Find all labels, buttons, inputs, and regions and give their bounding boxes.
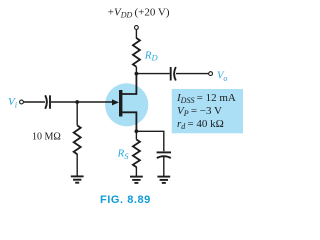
capacitor C1 left plate <box>45 95 47 109</box>
JFET channel bar <box>119 90 122 117</box>
node drain junction <box>135 72 139 76</box>
node source junction <box>135 129 139 133</box>
wire source node to RS <box>135 131 137 139</box>
node gate junction <box>75 100 79 104</box>
capacitor CS top plate <box>157 151 171 153</box>
resistor RD <box>133 38 140 67</box>
resistor RG 10 Mohm <box>74 125 81 154</box>
wire drain node to output capacitor <box>136 73 169 75</box>
wire source node to CS <box>136 131 163 151</box>
ground under CS <box>157 177 170 183</box>
capacitor C1 right plate <box>49 95 51 109</box>
svg-text:Vi: Vi <box>8 96 18 110</box>
highlight circle around JFET <box>105 83 148 126</box>
svg-text:Vo: Vo <box>217 71 227 84</box>
wire RS to ground <box>135 167 137 177</box>
svg-text:FIG. 8.89: FIG. 8.89 <box>100 194 151 206</box>
wire RG to ground <box>76 154 78 177</box>
svg-text:+VDD (+20 V): +VDD (+20 V) <box>108 6 170 19</box>
JFET drain lead <box>122 74 136 94</box>
ground under RG <box>71 176 84 182</box>
wire C1 to gate <box>51 101 114 103</box>
wire RD to drain node <box>135 67 137 74</box>
capacitor C2 right plate <box>174 67 176 81</box>
wire CS to ground <box>163 157 165 177</box>
svg-text:RS: RS <box>117 148 130 162</box>
wire C2 to Vo terminal <box>176 73 209 75</box>
capacitor CS bottom plate <box>157 156 171 158</box>
Vi terminal <box>20 100 24 104</box>
wire Vi to C1 <box>23 101 45 103</box>
gate arrowhead <box>112 99 119 105</box>
capacitor C2 left plate <box>170 67 172 81</box>
Vo terminal <box>209 72 213 76</box>
info box background <box>172 89 243 133</box>
resistor RS <box>133 140 140 168</box>
JFET source lead <box>122 112 136 131</box>
svg-text:10 MΩ: 10 MΩ <box>32 131 61 142</box>
svg-text:RD: RD <box>144 50 159 63</box>
wire gate node down to RG <box>76 102 78 125</box>
VDD terminal <box>135 26 139 30</box>
ground under RS <box>130 177 143 183</box>
wire VDD to RD <box>135 29 137 38</box>
